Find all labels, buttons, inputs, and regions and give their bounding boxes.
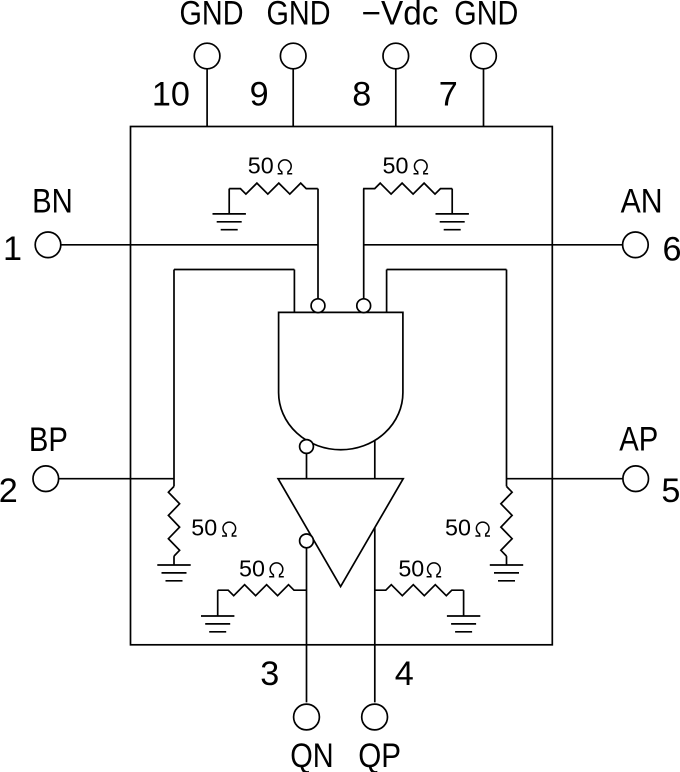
wire pin 9 stem xyxy=(292,56,294,127)
unit R1 ohm xyxy=(278,160,293,174)
ground G1 xyxy=(213,214,246,230)
unit R4 ohm xyxy=(475,522,490,536)
svg-text:6: 6 xyxy=(662,231,680,269)
svg-text:50: 50 xyxy=(445,515,471,541)
wire R2 to gate input node xyxy=(363,189,365,303)
pin 4 xyxy=(362,704,388,730)
svg-text:5: 5 xyxy=(661,472,680,510)
wire BP loop vertical xyxy=(173,270,175,487)
svg-text:3: 3 xyxy=(260,655,279,693)
svg-text:GND: GND xyxy=(180,0,244,33)
node gate input A xyxy=(357,299,371,313)
pin 2 xyxy=(33,466,59,492)
pin 1 xyxy=(35,232,61,258)
unit R2 ohm xyxy=(414,160,429,174)
resistor R4 50ohm right vertical xyxy=(501,486,512,556)
wire R3 ground stem xyxy=(173,556,175,565)
wire AP loop vertical xyxy=(506,270,508,487)
wire R1 ground stem xyxy=(228,189,230,214)
unit R5 ohm xyxy=(269,563,284,577)
svg-text:BN: BN xyxy=(32,183,73,221)
ground G2 xyxy=(436,214,469,230)
pin 7 xyxy=(471,43,497,69)
resistor R5 50ohm bottom-left xyxy=(218,585,307,596)
wire R4 ground stem xyxy=(506,556,508,565)
svg-text:50: 50 xyxy=(383,152,409,178)
resistor R6 50ohm bottom-right xyxy=(375,585,464,596)
svg-text:−Vdc: −Vdc xyxy=(362,0,439,33)
op-amp U1 AND-gate body xyxy=(279,312,403,449)
svg-text:4: 4 xyxy=(395,655,414,693)
resistor R1 50ohm top-left xyxy=(229,183,318,194)
wire R6 ground stem xyxy=(463,590,465,616)
wire AP loop horizontal xyxy=(387,269,507,271)
svg-text:AN: AN xyxy=(621,183,663,221)
wire R1 to gate input node xyxy=(317,189,319,303)
svg-text:9: 9 xyxy=(250,76,269,114)
pin 10 xyxy=(194,43,220,69)
unit R6 ohm xyxy=(427,563,442,577)
wire gate output QN bubble to inverter xyxy=(306,444,308,479)
pin 8 xyxy=(383,43,409,69)
svg-text:7: 7 xyxy=(439,76,458,114)
pin 9 xyxy=(280,43,306,69)
wire pin 2 BP to node xyxy=(46,478,174,480)
transistor U2 inverter triangle xyxy=(278,479,403,587)
pin 6 xyxy=(623,232,649,258)
wire R5 ground stem xyxy=(217,590,219,616)
pin 5 xyxy=(623,466,649,492)
node gate input B xyxy=(311,299,325,313)
svg-text:1: 1 xyxy=(3,230,22,268)
pin 3 xyxy=(294,704,320,730)
wire AP loop drop to gate xyxy=(386,270,388,313)
wire pin 10 stem xyxy=(206,56,208,127)
svg-text:50: 50 xyxy=(398,555,424,581)
svg-text:50: 50 xyxy=(239,555,265,581)
svg-text:QP: QP xyxy=(358,737,401,772)
ground G5 xyxy=(201,616,234,632)
wire pin 8 stem xyxy=(395,56,397,127)
node QN bubble xyxy=(300,440,314,454)
wire pin 7 stem xyxy=(483,56,485,127)
unit R3 ohm xyxy=(222,522,237,536)
resistor R3 50ohm left vertical xyxy=(168,486,179,556)
wire pin 6 AN to node xyxy=(364,244,636,246)
svg-text:BP: BP xyxy=(29,421,68,459)
resistor R2 50ohm top-right xyxy=(363,183,452,194)
wire R2 ground stem xyxy=(451,189,453,214)
ground G6 xyxy=(447,616,480,632)
wire pin 1 BN to node xyxy=(48,244,318,246)
svg-text:2: 2 xyxy=(0,472,18,510)
ground G4 xyxy=(490,565,523,581)
svg-text:50: 50 xyxy=(191,515,217,541)
svg-text:AP: AP xyxy=(619,421,658,459)
IC package outline xyxy=(131,127,553,645)
wire gate output QP to inverter xyxy=(374,440,376,478)
node QN output bubble xyxy=(300,534,314,548)
svg-text:GND: GND xyxy=(267,0,331,33)
ground G3 xyxy=(157,565,190,581)
wire QP output xyxy=(374,528,376,703)
wire pin 5 AP to node xyxy=(507,478,636,480)
svg-text:50: 50 xyxy=(248,152,274,178)
svg-text:8: 8 xyxy=(352,76,371,114)
wire QN output xyxy=(306,545,308,702)
wire BP loop horizontal xyxy=(174,269,294,271)
svg-text:GND: GND xyxy=(454,0,518,33)
wire BP loop drop to gate xyxy=(293,270,295,313)
svg-text:QN: QN xyxy=(290,737,333,772)
svg-text:10: 10 xyxy=(152,76,190,114)
